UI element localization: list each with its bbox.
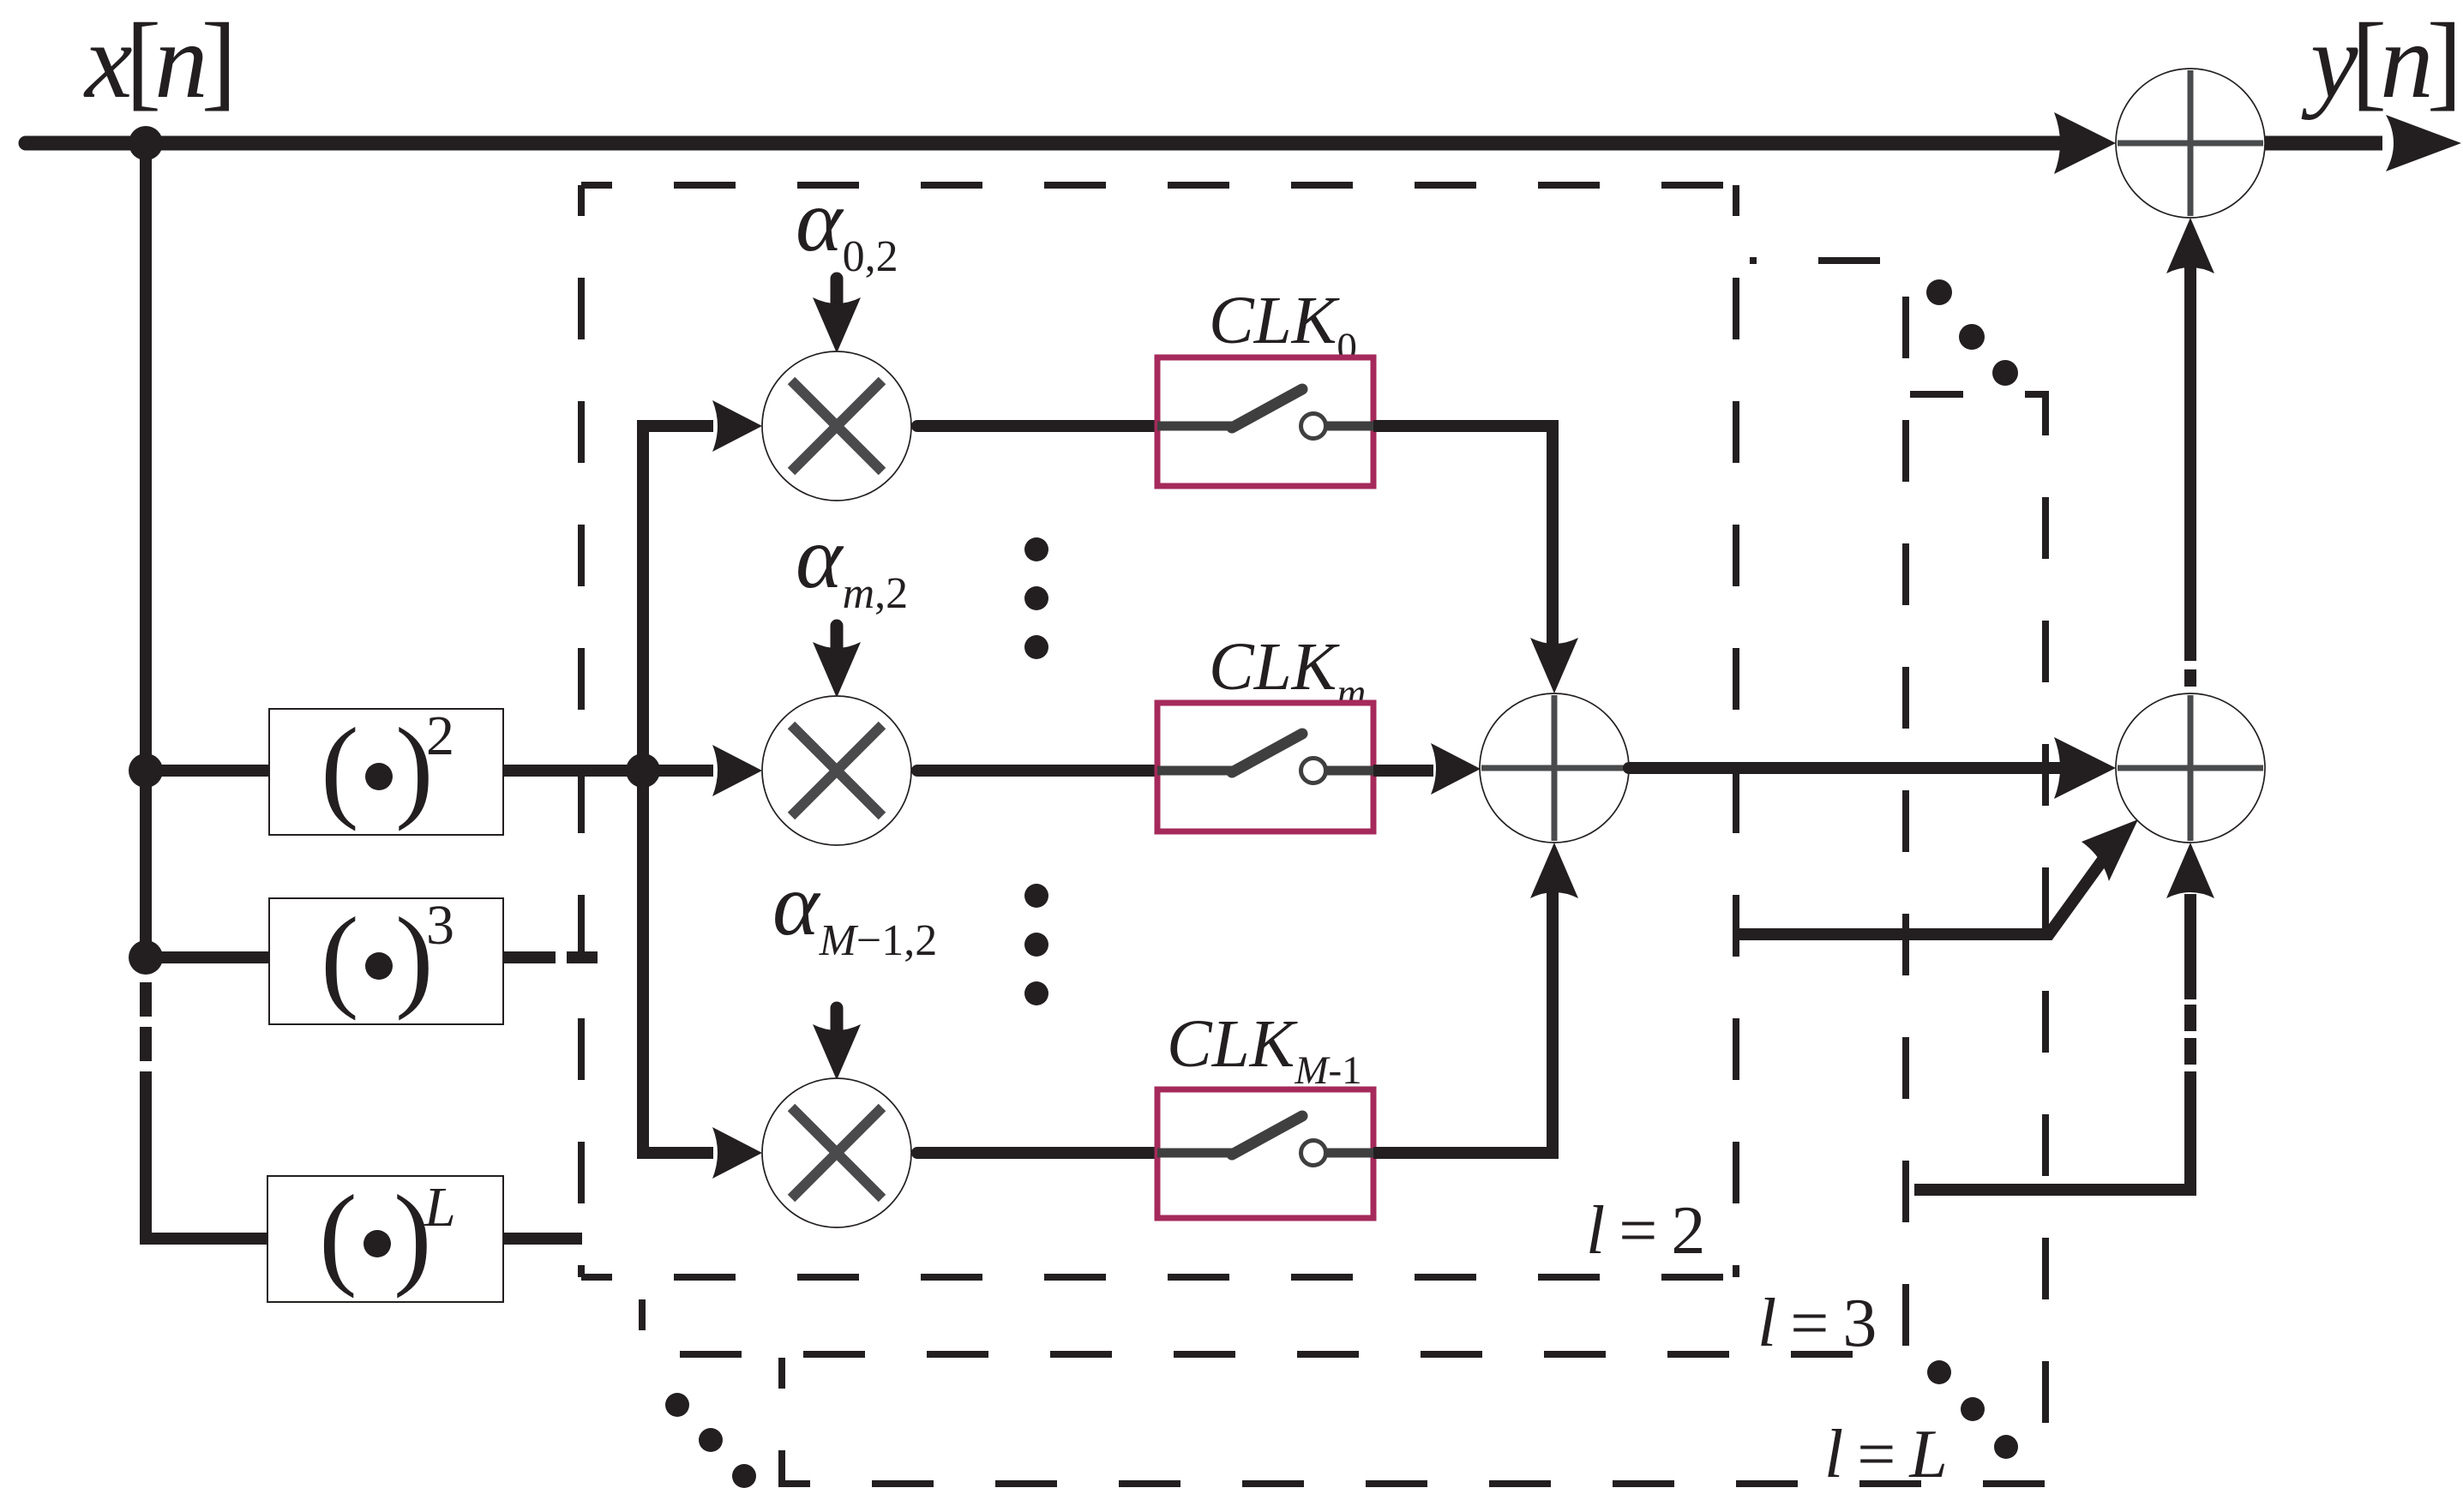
dashed box l=2 xyxy=(581,182,1736,189)
svg-text:L: L xyxy=(424,1176,456,1239)
dashed box l=L (partial) xyxy=(782,394,2045,1484)
wire: dotted continuation of left bus xyxy=(140,982,152,1106)
svg-text:2: 2 xyxy=(426,705,454,767)
wire: CLK_M-1 output elbow up to inner adder xyxy=(1373,891,1553,1153)
node: junction dot square branch xyxy=(129,753,163,788)
wire: cuber output stub xyxy=(503,951,556,963)
switch CLK_M-1 xyxy=(1157,1089,1375,1218)
wire: output y[n] xyxy=(2265,136,2382,151)
arrow alpha_M-1,2 into multiplier xyxy=(831,1008,844,1031)
svg-text:(: ( xyxy=(321,894,359,1021)
arrow alpha_0,2 into multiplier xyxy=(831,279,844,302)
wire: CLK_0 output elbow down to inner adder xyxy=(1373,426,1553,645)
wire: CLK_m output into inner adder xyxy=(1373,765,1433,777)
wire: left bus elbow into (.)^L xyxy=(146,1100,271,1239)
svg-text:x[n]: x[n] xyxy=(83,3,230,121)
multiplier row 0 xyxy=(762,351,911,501)
block (.)^3 cuber xyxy=(269,894,503,1024)
svg-text:l=L: l=L xyxy=(1824,1417,1948,1492)
node: junction dot at x[n] xyxy=(129,126,163,160)
switch CLK_0 xyxy=(1157,357,1375,486)
svg-text:3: 3 xyxy=(426,894,454,957)
dashed box l=3 (partial) xyxy=(642,261,1906,1354)
ellipsis dots between row 0 and row m xyxy=(1024,537,1048,561)
ellipsis dots between row m and row M-1 xyxy=(1024,884,1048,908)
wire: left vertical bus from x[n] down xyxy=(140,143,152,957)
wire: feed bus inside l=2 xyxy=(637,420,649,1159)
arrow alpha_m,2 into multiplier xyxy=(831,626,844,649)
node: junction dot cube branch xyxy=(129,940,163,975)
wire: branch into squarer xyxy=(146,765,273,777)
wire: arrow into multiplier row m xyxy=(643,765,713,777)
wire: multiplier M-1 output xyxy=(917,1147,1159,1159)
wire: arrow into multiplier row 0 xyxy=(637,420,713,432)
adder inner sum l=2 xyxy=(1480,693,1629,843)
svg-text:(: ( xyxy=(321,705,359,831)
wire: multiplier 0 output xyxy=(917,420,1159,432)
multiplier row m xyxy=(762,696,911,845)
switch CLK_m xyxy=(1157,703,1375,831)
multiplier row M-1 xyxy=(762,1078,911,1227)
adder right sum xyxy=(2116,693,2265,843)
block (.)^L L-th power xyxy=(267,1172,503,1302)
ellipsis dots bottom left between l=3 and l=L xyxy=(665,1393,689,1417)
wire: arrow into multiplier row M-1 xyxy=(637,1147,713,1159)
wire: inner adder output to right adder xyxy=(1629,762,2064,774)
svg-text:l=2: l=2 xyxy=(1586,1193,1705,1269)
adder top sum xyxy=(2116,69,2265,218)
ellipsis dots top right between l=3 and l=L xyxy=(1926,279,1952,305)
wire: right adder up to top adder with dash break xyxy=(2184,267,2196,661)
block (.)^2 squarer xyxy=(269,705,503,835)
wire: main input line x[n] to top adder xyxy=(26,136,2062,151)
wire: squarer output to feed bus xyxy=(503,765,643,777)
wire: multiplier m output xyxy=(917,765,1159,777)
wire: L-th power output stub xyxy=(503,1233,582,1245)
node: junction dot feed bus row m xyxy=(626,753,660,788)
wire: branch into cuber xyxy=(146,951,273,963)
svg-text:l=3: l=3 xyxy=(1757,1286,1877,1361)
wire: lower chain into right adder bottom xyxy=(2166,843,2214,898)
svg-text:(: ( xyxy=(319,1172,357,1299)
ellipsis dots bottom right between l=3 and l=L xyxy=(1927,1360,1951,1384)
wire: l=3 output bent arrow into right adder xyxy=(1739,848,2112,934)
svg-text:y[n]: y[n] xyxy=(2301,3,2455,121)
